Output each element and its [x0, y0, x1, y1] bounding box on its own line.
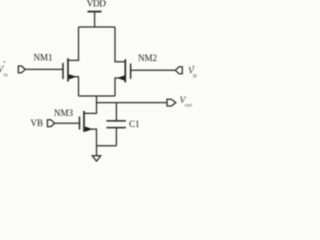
capacitor C1 bottom lead — [115, 128, 117, 146]
wire NM2 gate — [131, 69, 175, 71]
superscript plus of Vip — [193, 65, 194, 67]
svg-text:NM3: NM3 — [54, 108, 74, 118]
wire VDD stem — [94, 12, 96, 28]
svg-text:NM2: NM2 — [138, 53, 157, 63]
wire NM1 gate — [25, 68, 63, 70]
svg-text:ip: ip — [193, 73, 197, 79]
wire NM3 gate — [55, 122, 80, 124]
transistor NM1 gate bar — [62, 63, 64, 79]
transistor NM2 gate bar — [130, 64, 132, 79]
wire output — [97, 102, 168, 104]
capacitor C1 bottom plate — [106, 127, 126, 129]
wire ground bus — [97, 145, 117, 147]
transistor NM3 channel bar — [83, 111, 85, 132]
wire NM2 source leg — [115, 78, 125, 96]
port Vip (right input) — [175, 67, 182, 74]
wire NM3 source leg — [84, 129, 97, 146]
wire tail node — [79, 95, 116, 97]
transistor NM3 gate bar — [79, 117, 81, 130]
transistor NM1 channel bar — [67, 58, 69, 81]
arrow NM1 source — [69, 74, 77, 79]
svg-text:out: out — [185, 102, 192, 108]
wire VDD rail — [79, 26, 116, 28]
arrow NM3 source — [85, 127, 93, 132]
superscript minus of Vin — [4, 61, 6, 63]
svg-text:VB: VB — [31, 118, 44, 128]
capacitor C1 top plate — [106, 120, 126, 122]
transistor NM2 channel bar — [124, 59, 126, 82]
port Vin- (left input) — [18, 66, 25, 73]
wire tail to NM3 drain — [84, 96, 97, 113]
wire NM1 source leg — [68, 77, 79, 96]
svg-text:VDD: VDD — [87, 0, 107, 10]
arrow NM2 source — [117, 75, 125, 80]
port Vout (output) — [167, 99, 176, 106]
wire ground stem — [96, 146, 98, 156]
svg-text:NM1: NM1 — [34, 53, 53, 63]
VDD supply bar — [88, 11, 102, 13]
svg-text:C1: C1 — [129, 119, 140, 129]
capacitor C1 top lead — [115, 103, 117, 121]
ground symbol — [92, 156, 100, 161]
wire NM1 drain leg — [68, 27, 79, 60]
port VB (bias input) — [47, 120, 54, 127]
wire NM2 drain leg — [115, 27, 125, 62]
svg-text:in: in — [4, 72, 8, 78]
